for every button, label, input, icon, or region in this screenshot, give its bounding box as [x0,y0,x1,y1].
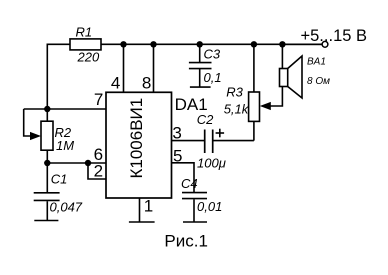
node C3 rail junction [197,41,203,47]
wire C2 to R3 [213,140,254,142]
wire pin4 drop [123,44,125,92]
node BA1 rail junction [279,41,285,47]
wire top rail right segment [101,43,322,45]
svg-text:C3: C3 [204,47,221,62]
svg-text:8: 8 [142,73,151,92]
arrow R2 wiper [30,132,41,140]
svg-text:BA1: BA1 [307,57,326,68]
svg-text:R3: R3 [226,85,243,100]
svg-text:C4: C4 [181,176,198,191]
svg-text:100μ: 100μ [197,155,226,170]
wire pin7 horizontal [24,108,106,110]
node pin4 rail junction [120,41,126,47]
wire top rail left segment [47,44,70,109]
svg-text:1: 1 [144,197,153,216]
node pin8 rail junction [150,41,156,47]
arrow R3 wiper [260,102,271,110]
wire R2 bottom lead [46,150,48,163]
resistor R2 [41,121,53,150]
op-amp U1 (timer IC DA1 body) [106,92,172,198]
svg-text:4: 4 [111,73,120,92]
terminal +V circle [322,41,328,47]
svg-text:0,047: 0,047 [50,200,83,215]
svg-text:220: 220 [77,50,100,65]
wire R3 wiper from speaker [269,87,282,107]
svg-text:0,01: 0,01 [197,199,222,214]
svg-text:5: 5 [173,147,182,166]
wire R3 bottom lead [253,121,255,140]
svg-text:R1: R1 [76,25,93,40]
wire R2 wiper loop [24,109,32,136]
wire R2 top lead [46,109,48,121]
svg-text:3: 3 [172,124,181,143]
polarity plus C2 [216,129,225,138]
svg-text:8 Ом: 8 Ом [307,76,330,87]
svg-text:+5...15 В: +5...15 В [301,27,368,45]
capacitor C3 [189,44,212,87]
svg-text:Рис.1: Рис.1 [164,232,208,251]
ground C3 [190,86,211,88]
node R2 top junction [44,106,50,112]
capacitor C4 [182,193,207,222]
ground C4 [183,221,207,223]
wire pin5 horizontal [172,163,195,193]
capacitor C1 [34,163,60,221]
ground C1 [34,220,58,222]
wire terminal feed [282,43,322,45]
svg-text:1M: 1M [56,138,74,153]
wire pin2 stub [88,163,106,179]
svg-text:5,1k: 5,1k [224,102,250,117]
svg-text:C2: C2 [197,112,214,127]
node C1 top junction [44,160,50,166]
node R3 rail junction [251,41,257,47]
wire pin1 lead [139,198,141,222]
capacitor C2 [205,130,213,154]
wire R3 top lead [253,44,255,92]
svg-text:0,1: 0,1 [204,70,222,85]
svg-text:К1006ВИ1: К1006ВИ1 [127,98,146,179]
svg-text:7: 7 [94,90,103,109]
resistor R1 [70,39,101,50]
ground pin1 [129,221,155,223]
wire pin6 horizontal [47,162,106,164]
svg-text:2: 2 [94,161,103,180]
wire BA1 drop [281,44,283,68]
svg-text:C1: C1 [51,171,68,186]
wire pin3 horizontal [172,140,205,142]
speaker BA1 [280,56,303,98]
wire pin8 drop [153,44,155,92]
resistor R3 [249,92,260,121]
node pin2 stub junction [85,160,91,166]
